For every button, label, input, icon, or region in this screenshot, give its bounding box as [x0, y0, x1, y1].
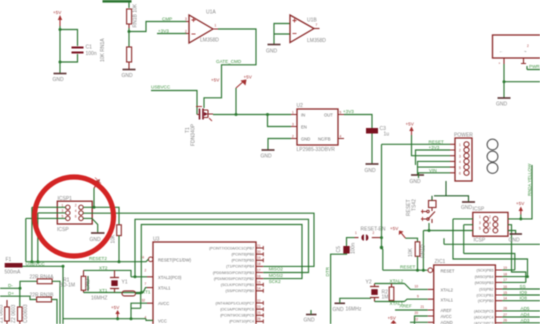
svg-text:GND: GND — [122, 73, 134, 79]
resistor RN1D 10K — [408, 242, 427, 258]
svg-text:RESET(PC1/DW): RESET(PC1/DW) — [158, 257, 192, 262]
svg-text:ICSP: ICSP — [473, 207, 485, 213]
wire ICSP pin4 — [508, 225, 526, 283]
svg-text:3: 3 — [292, 123, 294, 127]
svg-text:1M: 1M — [382, 295, 389, 301]
svg-text:D+: D+ — [8, 291, 14, 296]
transistor T1 FDN340P — [185, 107, 213, 147]
wire IO9 — [502, 294, 540, 296]
svg-text:5: 5 — [479, 227, 481, 231]
svg-text:DTR: DTR — [325, 266, 330, 276]
svg-text:(PCINT5)PB5: (PCINT5)PB5 — [231, 259, 254, 263]
ground switch — [461, 202, 475, 211]
svg-text:ICSP: ICSP — [474, 238, 486, 244]
wire +3V3 to pin2 — [416, 150, 451, 165]
svg-text:(ICP)PB0: (ICP)PB0 — [478, 299, 494, 303]
svg-text:RESET: RESET — [400, 265, 416, 270]
wire C3 to gnd — [371, 134, 373, 164]
svg-text:14: 14 — [503, 297, 507, 301]
svg-text:7: 7 — [145, 282, 147, 286]
wire RN3B right — [52, 300, 58, 324]
svg-text:U1B: U1B — [307, 18, 317, 24]
svg-text:Z2 0603: Z2 0603 — [11, 304, 17, 323]
svg-text:6: 6 — [75, 215, 77, 219]
wire RN1C to RESET2 — [118, 236, 120, 262]
wire GND pin — [268, 139, 291, 150]
ground U2 — [261, 150, 275, 160]
wire ICSP1 pin6 GND — [83, 218, 98, 232]
svg-text:4: 4 — [340, 135, 342, 139]
resistor R2 — [382, 284, 394, 302]
svg-text:19: 19 — [257, 256, 261, 260]
wire +5V to VCC bus — [117, 317, 119, 319]
svg-text:2: 2 — [185, 30, 187, 34]
svg-text:(SCK)PB5: (SCK)PB5 — [476, 269, 493, 273]
svg-text:19: 19 — [503, 266, 507, 270]
svg-text:25: 25 — [257, 311, 261, 315]
svg-text:14: 14 — [257, 287, 261, 291]
svg-text:LM358D: LM358D — [200, 38, 219, 44]
header ICSP1 — [57, 196, 92, 233]
svg-text:CG0603: CG0603 — [23, 304, 29, 323]
wire PWRIN — [527, 66, 540, 70]
resistor RN1B — [127, 3, 139, 28]
wire MOSI2 nested L — [135, 219, 309, 276]
wire +3V3 to op-amp — [157, 33, 187, 35]
wire RESET down to ZIC1 — [382, 248, 383, 271]
svg-text:+3V3: +3V3 — [429, 145, 440, 150]
ground POWER — [410, 175, 425, 185]
wire switch to GND — [434, 196, 469, 202]
svg-text:16MHz: 16MHz — [346, 307, 362, 313]
wire jack pin to GND — [503, 64, 505, 98]
varistor Z1 — [0, 300, 9, 324]
svg-text:(SS)PB2: (SS)PB2 — [479, 288, 493, 292]
node junction bottom — [59, 61, 62, 64]
svg-text:XTAL2: XTAL2 — [441, 288, 454, 293]
svg-text:2: 2 — [373, 231, 375, 235]
wire USBVCC — [23, 265, 64, 267]
wire XTAL1 — [375, 301, 405, 303]
op-amp U1A — [185, 10, 219, 44]
svg-text:10K RN1A: 10K RN1A — [100, 38, 106, 62]
wire top bundle — [103, 0, 132, 3]
svg-text:+: + — [499, 62, 501, 66]
wire MOSI — [502, 281, 525, 283]
svg-text:+5V: +5V — [244, 75, 253, 80]
svg-text:17: 17 — [257, 268, 261, 272]
svg-text:(OC1)PB1: (OC1)PB1 — [476, 294, 493, 298]
annotation red circle — [35, 177, 114, 256]
svg-text:3: 3 — [479, 221, 481, 225]
svg-text:15: 15 — [257, 281, 261, 285]
+5V supply ICSP1 — [94, 178, 101, 189]
wire ICSP pin2 +5V — [508, 215, 521, 219]
wire VCC bus — [63, 319, 153, 321]
wire bundle top of ZIC1 — [444, 238, 540, 244]
svg-text:20: 20 — [257, 250, 261, 254]
wire XT2 top — [84, 270, 132, 276]
wire capacitor branch — [60, 30, 78, 63]
svg-text:AD3: AD3 — [521, 318, 530, 323]
svg-text:(PCINT9/OC1B)PC5: (PCINT9/OC1B)PC5 — [220, 314, 254, 318]
svg-text:10K: 10K — [408, 247, 414, 257]
wire XTAL2 — [375, 283, 405, 285]
svg-text:15: 15 — [503, 291, 507, 295]
svg-text:+5V: +5V — [388, 316, 397, 321]
svg-text:XTAL1: XTAL1 — [441, 297, 454, 302]
wire AD5 — [502, 310, 540, 312]
wire T1 drain to U2 IN (+5V rail) — [213, 114, 291, 116]
op-amp U1B — [290, 15, 326, 44]
wire ICSP pin5 RESET — [423, 231, 472, 271]
node CMP junction — [128, 30, 131, 33]
wire D- — [0, 281, 37, 288]
svg-text:18: 18 — [257, 262, 261, 266]
node jack branch — [503, 80, 506, 83]
fuse F1 — [5, 257, 23, 276]
svg-text:LP2985-33DBVR: LP2985-33DBVR — [297, 147, 336, 153]
svg-text:GND: GND — [266, 49, 278, 55]
wire RN1D to RESET — [417, 256, 419, 270]
svg-text:GND: GND — [365, 168, 377, 174]
svg-text:(PDI/MOSI/PCINT2)PB2: (PDI/MOSI/PCINT2)PB2 — [214, 277, 254, 281]
wire step to U3 XTAL1 — [140, 288, 147, 293]
resistor RN3B — [30, 293, 55, 302]
inductor L — [122, 291, 136, 296]
svg-text:PWRIN: PWRIN — [529, 64, 540, 69]
svg-text:100n: 100n — [86, 51, 97, 57]
capacitor C5 — [336, 243, 357, 254]
node U2 branch junction — [266, 113, 269, 116]
svg-text:2: 2 — [75, 204, 77, 208]
wire CMP to op-amp — [129, 22, 187, 32]
svg-text:IN: IN — [301, 113, 305, 118]
svg-text:RN1D: RN1D — [421, 244, 427, 258]
svg-text:GND: GND — [410, 179, 422, 185]
svg-text:+3V3: +3V3 — [158, 29, 169, 34]
ground RN1A — [122, 70, 136, 80]
svg-text:AD5: AD5 — [521, 306, 530, 311]
svg-text:Y1: Y1 — [122, 280, 128, 286]
wire USBVCC to T1 source — [151, 91, 197, 115]
svg-text:CMP: CMP — [162, 17, 172, 22]
wire ICSP1 pin1 — [32, 207, 66, 261]
svg-text:SS: SS — [520, 284, 526, 289]
svg-text:1: 1 — [355, 231, 357, 235]
svg-text:(T1/PCINT4)PB4: (T1/PCINT4)PB4 — [226, 265, 254, 269]
svg-text:USBVCC: USBVCC — [151, 85, 171, 90]
svg-text:U2: U2 — [297, 103, 304, 109]
svg-text:GND: GND — [461, 205, 473, 211]
svg-text:(ADC5)PC5: (ADC5)PC5 — [474, 309, 493, 313]
svg-text:4: 4 — [459, 160, 461, 164]
svg-text:RESET: RESET — [429, 139, 445, 144]
resistor R1 — [60, 270, 86, 292]
svg-text:(SCLK/PCINT1)PB1: (SCLK/PCINT1)PB1 — [221, 283, 254, 287]
svg-text:17: 17 — [503, 278, 507, 282]
wire AGND — [410, 321, 428, 323]
svg-text:1: 1 — [459, 143, 461, 147]
svg-text:22: 22 — [257, 299, 261, 303]
svg-text:XT2: XT2 — [99, 265, 108, 270]
svg-text:+5V: +5V — [111, 305, 120, 310]
wire RN4A right — [52, 281, 60, 324]
svg-text:26: 26 — [257, 317, 261, 321]
svg-text:(PCINT7/OC0A/OC1C)PB7: (PCINT7/OC0A/OC1C)PB7 — [209, 246, 254, 250]
svg-text:XTAL2: XTAL2 — [390, 279, 404, 284]
svg-text:D-: D- — [8, 283, 13, 288]
svg-text:(PD0/MISO/PCINT3)PB3: (PD0/MISO/PCINT3)PB3 — [213, 271, 254, 275]
ground ICSP — [509, 234, 523, 244]
wire AD4 — [502, 316, 540, 318]
svg-text:500mA: 500mA — [5, 270, 22, 276]
resistor RN4A — [30, 275, 55, 284]
svg-text:2: 2 — [459, 149, 461, 153]
svg-text:(OC1A/PCINT8)PC6: (OC1A/PCINT8)PC6 — [220, 308, 254, 312]
svg-text:Z1 0603: Z1 0603 — [0, 304, 5, 323]
svg-text:XT1: XT1 — [99, 288, 108, 293]
svg-text:26: 26 — [503, 319, 507, 323]
svg-text:RN1B 10K: RN1B 10K — [133, 3, 139, 27]
mounting holes — [487, 139, 498, 150]
wire +5V branch — [235, 88, 237, 115]
wire RESET to pin1 — [382, 143, 451, 145]
svg-text:C1: C1 — [86, 45, 93, 51]
wire U3 XTAL2 — [131, 276, 147, 278]
svg-text:VCC: VCC — [158, 318, 167, 323]
wire SCK — [502, 269, 514, 271]
+5V supply RN1D — [390, 226, 406, 238]
wire C5 top to jumper — [347, 238, 355, 246]
wire D- down — [19, 288, 21, 307]
svg-text:1: 1 — [215, 24, 217, 28]
svg-text:RESET2: RESET2 — [89, 256, 107, 261]
wire ICSP pin2 to RN2 — [521, 165, 532, 219]
node drain junction — [235, 113, 238, 116]
svg-text:RESET: RESET — [441, 268, 455, 273]
svg-text:6: 6 — [489, 227, 491, 231]
wire GND pins 4,5 — [418, 161, 451, 174]
svg-text:GND: GND — [304, 318, 316, 324]
ground — [53, 74, 67, 84]
wire C5 bottom DTR — [331, 254, 347, 324]
svg-text:MOSI2: MOSI2 — [269, 273, 284, 278]
wire D+ — [0, 296, 37, 299]
wire +5V to pin3 — [412, 135, 451, 156]
svg-text:22R RN3B: 22R RN3B — [30, 293, 55, 299]
svg-text:3: 3 — [459, 154, 461, 158]
svg-text:IO9: IO9 — [520, 290, 528, 295]
+5V supply POWER — [406, 122, 415, 136]
wire AVCC — [415, 316, 428, 324]
svg-text:MISO2: MISO2 — [269, 267, 284, 272]
regulator U2 LP2985 — [291, 103, 344, 153]
svg-text:USBVCC: USBVCC — [26, 261, 46, 266]
svg-text:(MISO)PB4: (MISO)PB4 — [475, 275, 494, 279]
jumper RESET-EN — [355, 227, 386, 241]
svg-text:RN2A YELLOW: RN2A YELLOW — [527, 163, 532, 196]
svg-text:100n: 100n — [351, 243, 357, 254]
wire SCK2 nested L — [141, 225, 302, 293]
header ICSP — [473, 207, 509, 244]
svg-text:OUT: OUT — [324, 113, 333, 118]
svg-text:GND: GND — [509, 238, 521, 244]
svg-text:4: 4 — [489, 221, 491, 225]
header POWER — [450, 133, 473, 182]
svg-text:4: 4 — [75, 209, 77, 213]
svg-text:2: 2 — [292, 135, 294, 139]
wire RESET into ZIC1 — [383, 269, 428, 271]
+5V supply arrow — [236, 75, 253, 89]
svg-text:LM358D: LM358D — [307, 38, 326, 44]
svg-text:+5V: +5V — [516, 201, 525, 206]
wire GATE_CMD from U1A output — [204, 29, 256, 108]
wire IO8 — [502, 300, 540, 302]
wire XTAL2 from Y2 — [405, 284, 428, 290]
svg-text:+5V: +5V — [211, 78, 220, 83]
svg-text:GND: GND — [496, 102, 508, 108]
svg-text:+3V3: +3V3 — [343, 109, 354, 114]
IC U3 — [141, 237, 264, 324]
varistor Z2 — [11, 304, 29, 324]
svg-text:ICSP: ICSP — [57, 227, 69, 233]
svg-text:GND: GND — [301, 137, 310, 142]
svg-text:5: 5 — [459, 166, 461, 170]
ground C3 — [365, 164, 379, 174]
wire ICSP1 pin3 — [38, 213, 66, 262]
svg-text:EN: EN — [301, 125, 307, 130]
resonator Y2 — [366, 280, 380, 302]
svg-text:22R RN4A: 22R RN4A — [30, 275, 55, 281]
svg-text:10: 10 — [415, 285, 419, 289]
svg-text:(PCINT6)PB6: (PCINT6)PB6 — [231, 253, 254, 257]
svg-text:AGND: AGND — [441, 320, 453, 324]
svg-text:AVCC: AVCC — [441, 314, 452, 319]
svg-text:C5: C5 — [336, 246, 342, 253]
ground U3 right — [304, 310, 317, 324]
wire SS — [502, 288, 540, 290]
svg-text:6: 6 — [459, 172, 461, 176]
wire to right edge — [504, 81, 540, 83]
wire +5V rail pin2 to RN1C — [83, 207, 119, 225]
svg-text:←: ← — [499, 49, 503, 54]
wire EN branch — [268, 115, 292, 127]
node junction top — [59, 28, 62, 31]
svg-text:28: 28 — [503, 307, 507, 311]
svg-text:XTAL1: XTAL1 — [158, 286, 171, 291]
svg-text:XTAL2(PC0): XTAL2(PC0) — [158, 275, 182, 280]
svg-text:(PCINT10)PC4: (PCINT10)PC4 — [229, 320, 254, 324]
resistor RN1A — [100, 38, 132, 69]
svg-text:3: 3 — [185, 17, 187, 21]
svg-text:(SS/PCINT2)PB0: (SS/PCINT2)PB0 — [226, 289, 254, 293]
wire AD3 — [502, 322, 540, 324]
ground Y2 — [333, 298, 372, 313]
svg-text:BD-1M: BD-1M — [60, 283, 76, 289]
wire ICSP pin3 — [464, 225, 473, 254]
svg-text:5: 5 — [340, 111, 342, 115]
wire U2 OUT +3V3 — [344, 115, 372, 129]
resistor RN1C 10K — [111, 225, 122, 244]
svg-text:AVCC: AVCC — [158, 301, 169, 306]
svg-text:1u: 1u — [384, 132, 390, 138]
+5V supply ICSP — [516, 201, 525, 215]
svg-text:FDN340P: FDN340P — [191, 123, 197, 146]
wire RESET vertical — [381, 144, 383, 247]
svg-text:(ADC4)PC4: (ADC4)PC4 — [474, 316, 493, 320]
ground jack — [496, 98, 511, 108]
svg-text:GND: GND — [333, 307, 345, 313]
svg-text:SCK2: SCK2 — [269, 279, 281, 284]
wire VIN to pin6 — [419, 173, 451, 178]
svg-text:AD4: AD4 — [521, 312, 530, 317]
wire switch to RESET net — [428, 223, 430, 231]
svg-text:16: 16 — [257, 274, 261, 278]
svg-text:1: 1 — [479, 215, 481, 219]
wire MISO — [502, 276, 527, 278]
svg-text:20: 20 — [415, 311, 419, 315]
svg-text:TS42: TS42 — [412, 199, 418, 211]
wire divider middle — [128, 28, 130, 47]
svg-text:GND: GND — [261, 154, 273, 160]
+5V supply symbol — [53, 10, 62, 26]
svg-text:32: 32 — [142, 299, 146, 303]
wire +5V to RN1D — [406, 238, 418, 242]
svg-text:ZIC1: ZIC1 — [435, 259, 446, 265]
svg-text:18: 18 — [503, 272, 507, 276]
svg-text:23: 23 — [257, 305, 261, 309]
svg-text:VIN: VIN — [429, 168, 437, 173]
svg-text:1: 1 — [292, 111, 294, 115]
svg-text:F1: F1 — [6, 257, 12, 263]
+5V supply bottom right — [388, 316, 397, 324]
svg-text:21: 21 — [257, 244, 261, 248]
wire MISO2 nested L — [83, 213, 314, 266]
capacitor C3 — [366, 126, 389, 138]
capacitor C1 — [72, 45, 97, 58]
svg-text:U1A: U1A — [206, 10, 216, 16]
wire XT1 bottom — [84, 292, 142, 294]
svg-text:NC/FB: NC/FB — [318, 137, 331, 142]
svg-text:+5V: +5V — [390, 226, 399, 231]
switch RESET TS42 — [406, 199, 436, 223]
svg-text:(MOSI)PB3: (MOSI)PB3 — [475, 281, 494, 285]
crystal Y1 — [110, 270, 128, 292]
svg-text:21: 21 — [421, 305, 425, 309]
svg-text:16: 16 — [503, 285, 507, 289]
svg-text:16MHZ: 16MHZ — [91, 296, 107, 302]
wire XTAL1 from Y2 — [405, 299, 428, 301]
svg-text:Y2: Y2 — [366, 280, 372, 286]
svg-text:GND: GND — [90, 237, 102, 243]
svg-text:GND: GND — [53, 77, 65, 83]
wire U1B inputs — [274, 24, 290, 45]
svg-text:(INT4/ADP1/CLK0)PC7: (INT4/ADP1/CLK0)PC7 — [215, 301, 254, 305]
ground U1B — [266, 45, 281, 55]
svg-text:AREF: AREF — [441, 308, 453, 313]
svg-text:7: 7 — [316, 23, 318, 27]
ground ICSP1 — [90, 233, 105, 243]
wire ICSP pin6 GND — [508, 231, 516, 234]
svg-text:+5V: +5V — [406, 122, 415, 127]
svg-text:IO8: IO8 — [520, 296, 528, 301]
IC ZIC1 — [415, 259, 508, 324]
wire ICSP pin1 — [453, 219, 528, 277]
svg-text:2: 2 — [527, 44, 529, 48]
power jack X1 — [493, 35, 540, 66]
wire +5V down to rail — [93, 188, 95, 207]
